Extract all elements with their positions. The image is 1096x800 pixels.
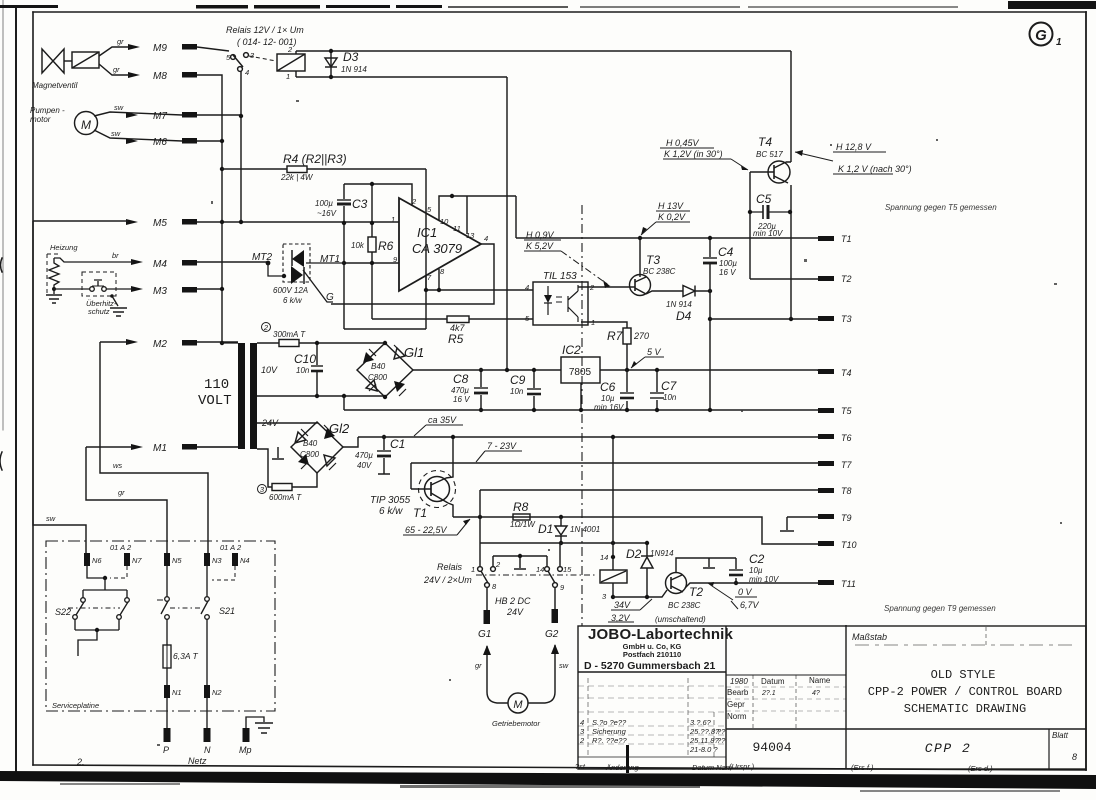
svg-text:(Urspr.): (Urspr.) bbox=[729, 762, 755, 771]
T4 emitter down bbox=[790, 185, 792, 319]
phototransistor bbox=[568, 285, 578, 322]
svg-text:H 0,45V: H 0,45V bbox=[666, 138, 700, 148]
terminal N3 bbox=[204, 553, 210, 566]
valve coil box bbox=[72, 52, 99, 68]
capacitor C3 plates bbox=[337, 199, 351, 201]
svg-text:Magnetventil: Magnetventil bbox=[32, 81, 78, 90]
wire M8 right then down bus x222 bbox=[197, 75, 222, 343]
fuse 600mA body bbox=[272, 484, 292, 491]
svg-text:Spannung gegen T5 gemessen: Spannung gegen T5 gemessen bbox=[885, 203, 997, 212]
Masstab dashed rule bbox=[855, 644, 1075, 646]
svg-text:14: 14 bbox=[536, 565, 544, 574]
svg-text:6,7V: 6,7V bbox=[740, 600, 760, 610]
optocoupler box bbox=[533, 282, 588, 325]
svg-text:270: 270 bbox=[633, 331, 649, 341]
relay coil box bbox=[600, 570, 627, 583]
wire IC1 out to TIL pin4 bbox=[426, 289, 533, 291]
7805 ground pin bbox=[580, 383, 582, 410]
svg-text:Relais 12V / 1× Um: Relais 12V / 1× Um bbox=[226, 25, 304, 35]
svg-text:10n: 10n bbox=[296, 366, 310, 375]
transistor T1 power bbox=[425, 477, 450, 502]
svg-text:min 10V: min 10V bbox=[749, 575, 779, 584]
annotation 5V bbox=[631, 357, 664, 368]
handwritten notes bbox=[76, 203, 997, 767]
G2 terminal bar bbox=[552, 609, 559, 623]
terminal M3 bbox=[182, 287, 197, 293]
svg-text:B40: B40 bbox=[303, 439, 318, 448]
svg-text:10n: 10n bbox=[663, 393, 677, 402]
resistor R7 bbox=[623, 328, 631, 344]
svg-text:5 V: 5 V bbox=[647, 347, 662, 357]
relay coil box bbox=[277, 54, 305, 71]
terminal N bbox=[204, 728, 211, 742]
svg-text:24V / 2×Um: 24V / 2×Um bbox=[423, 575, 472, 585]
svg-text:TIP 3055: TIP 3055 bbox=[370, 495, 411, 506]
thermal cutout dashed box bbox=[82, 272, 116, 296]
svg-text:10: 10 bbox=[440, 217, 449, 226]
wire M6 to bus x222 bbox=[197, 140, 222, 142]
svg-text:94004: 94004 bbox=[752, 740, 791, 755]
annotation H12,8V right bbox=[795, 152, 893, 174]
svg-text:T6: T6 bbox=[841, 433, 852, 443]
svg-text:2: 2 bbox=[495, 560, 501, 569]
terminal T1 bbox=[818, 236, 834, 241]
svg-text:3: 3 bbox=[250, 51, 255, 60]
svg-text:OLD STYLE: OLD STYLE bbox=[931, 668, 996, 682]
T1 bus wire bbox=[516, 237, 818, 239]
svg-text:16 V: 16 V bbox=[719, 268, 736, 277]
N3 wire down through S21 bbox=[206, 566, 208, 597]
svg-text:M3: M3 bbox=[153, 286, 167, 297]
terminal M7 bbox=[182, 112, 197, 118]
svg-text:1: 1 bbox=[1056, 37, 1062, 48]
svg-text:Serviceplatine: Serviceplatine bbox=[52, 701, 99, 710]
drawing number symbol G1 top right bbox=[1030, 23, 1063, 49]
svg-text:3,2V: 3,2V bbox=[611, 613, 631, 623]
svg-text:11: 11 bbox=[453, 224, 461, 233]
diode D3 bbox=[330, 51, 332, 77]
svg-text:40V: 40V bbox=[357, 461, 372, 470]
svg-text:C6: C6 bbox=[600, 380, 616, 394]
svg-text:1N 4001: 1N 4001 bbox=[570, 525, 600, 534]
resistor R8 body bbox=[513, 514, 530, 520]
contact arms bbox=[481, 571, 488, 583]
svg-text:T5: T5 bbox=[841, 406, 852, 416]
resistor R5 body bbox=[447, 316, 469, 323]
svg-text:H 0,9V: H 0,9V bbox=[526, 230, 555, 240]
T7 bus wire bbox=[411, 462, 818, 464]
24V bus wire to T6 bbox=[358, 436, 818, 438]
resistor R6 body bbox=[368, 237, 376, 252]
svg-text:Gepr: Gepr bbox=[727, 700, 745, 709]
bridge rectifier Gl1 bbox=[357, 343, 413, 397]
svg-text:470µ: 470µ bbox=[355, 451, 373, 460]
svg-text:8: 8 bbox=[440, 267, 445, 276]
scan noise specks bbox=[157, 100, 1062, 746]
svg-text:HB 2 DC: HB 2 DC bbox=[495, 596, 531, 606]
wire R5 row to TIL pin5 bbox=[372, 318, 533, 320]
svg-text:14: 14 bbox=[600, 553, 608, 562]
dash-dot crease divider bbox=[581, 205, 583, 626]
svg-text:Datum Nam: Datum Nam bbox=[692, 763, 732, 772]
wire M9 to switch bbox=[197, 47, 229, 51]
wire valve to M9 bbox=[99, 47, 130, 56]
svg-text:JOBO-Labortechnik: JOBO-Labortechnik bbox=[588, 626, 734, 643]
svg-text:BC 517: BC 517 bbox=[756, 150, 783, 159]
wire R4 row bbox=[222, 168, 426, 170]
capacitor C2 bbox=[735, 558, 737, 583]
svg-text:2: 2 bbox=[263, 323, 269, 332]
terminal M8 bbox=[182, 72, 197, 78]
faint page left edge bbox=[2, 0, 4, 430]
wire to right ground bbox=[112, 296, 118, 306]
svg-text:600V 12A: 600V 12A bbox=[273, 286, 308, 295]
svg-text:VOLT: VOLT bbox=[198, 393, 232, 409]
svg-text:1Ω/1W: 1Ω/1W bbox=[510, 520, 536, 529]
S22 dash line + label bbox=[68, 607, 120, 609]
coil pin3 down bbox=[612, 583, 614, 597]
wire valve to M8 bbox=[99, 64, 130, 75]
svg-text:N2: N2 bbox=[212, 688, 222, 697]
border frame left inner line bbox=[32, 12, 34, 765]
terminal M9 bbox=[182, 44, 197, 50]
svg-text:motor: motor bbox=[30, 115, 51, 124]
T2 bus wire from C5 loop bbox=[750, 278, 818, 280]
junction dots D3 bbox=[329, 49, 333, 53]
T9 stub with open contact bbox=[780, 517, 818, 531]
svg-text:T3: T3 bbox=[841, 314, 852, 324]
svg-text:Norm: Norm bbox=[727, 712, 747, 721]
svg-text:D4: D4 bbox=[676, 309, 692, 323]
svg-text:K 1,2V (in 30°): K 1,2V (in 30°) bbox=[664, 149, 723, 159]
pin2 stub to T3 base bbox=[578, 286, 630, 288]
svg-text:6 k/w: 6 k/w bbox=[379, 506, 403, 517]
svg-text:M9: M9 bbox=[153, 43, 167, 54]
svg-text:P: P bbox=[163, 745, 169, 755]
svg-text:ca 35V: ca 35V bbox=[428, 415, 457, 425]
svg-text:5: 5 bbox=[427, 205, 432, 214]
svg-text:Sicherung: Sicherung bbox=[592, 727, 627, 736]
annotation 7-23V bbox=[476, 451, 522, 462]
svg-text:gr: gr bbox=[117, 37, 124, 46]
wire M4 row to triac MT2 bbox=[197, 261, 268, 263]
svg-text:Name: Name bbox=[809, 676, 831, 685]
svg-text:6,3A T: 6,3A T bbox=[173, 651, 199, 661]
contact circles bbox=[478, 567, 483, 572]
T1 emitter corner bbox=[448, 503, 453, 517]
terminal T9 bbox=[818, 514, 834, 519]
dashed actuation line bbox=[476, 574, 596, 576]
svg-text:T8: T8 bbox=[841, 486, 852, 496]
border frame left outer line bbox=[15, 8, 17, 771]
svg-text:R?. ??e??: R?. ??e?? bbox=[592, 736, 627, 745]
svg-text:Spannung gegen T9 gemessen: Spannung gegen T9 gemessen bbox=[884, 604, 996, 613]
svg-text:7: 7 bbox=[427, 273, 432, 282]
capacitor C7 bbox=[656, 370, 658, 410]
wire MT1 row to pin9 bbox=[344, 262, 399, 264]
svg-text:2: 2 bbox=[589, 283, 595, 292]
svg-text:(Ers f.): (Ers f.) bbox=[851, 763, 874, 772]
svg-text:1N914: 1N914 bbox=[650, 549, 674, 558]
terminal M5 bbox=[182, 219, 197, 225]
svg-text:Gl2: Gl2 bbox=[329, 421, 350, 436]
svg-text:C8: C8 bbox=[453, 372, 469, 386]
terminal T8 bbox=[818, 488, 834, 493]
svg-text:T4: T4 bbox=[841, 368, 852, 378]
svg-text:100µ: 100µ bbox=[315, 199, 333, 208]
fuse 6,3A body bbox=[163, 645, 171, 668]
Gl2 output to 35V bus bbox=[343, 437, 358, 447]
capacitor C5 plates bbox=[762, 205, 764, 219]
junction heater bottom bbox=[52, 287, 56, 291]
svg-text:C1: C1 bbox=[390, 437, 405, 451]
wire M1 bbox=[86, 446, 238, 448]
svg-text:br: br bbox=[112, 251, 119, 260]
svg-text:7 - 23V: 7 - 23V bbox=[487, 441, 517, 451]
wire pin2 to IC1 down (R4 branch crossing) bbox=[515, 196, 517, 238]
svg-text:10µ: 10µ bbox=[601, 394, 615, 403]
apex pin4 feedback wire bbox=[331, 244, 494, 304]
svg-text:gr: gr bbox=[113, 65, 120, 74]
junction dots left buses bbox=[239, 114, 243, 118]
svg-text:S22: S22 bbox=[55, 607, 71, 617]
svg-text:M4: M4 bbox=[153, 259, 167, 270]
svg-text:01 A 2: 01 A 2 bbox=[110, 543, 132, 552]
annotation 34V bbox=[611, 599, 652, 610]
svg-text:N5: N5 bbox=[172, 556, 182, 565]
svg-text:CPP 2: CPP 2 bbox=[925, 741, 972, 756]
svg-text:(umschaltend): (umschaltend) bbox=[655, 615, 706, 624]
svg-text:H 12,8 V: H 12,8 V bbox=[836, 142, 872, 152]
bridge rectifier Gl2 bbox=[291, 422, 343, 473]
MT2 junction and wire bbox=[266, 261, 271, 266]
svg-text:0 V: 0 V bbox=[738, 587, 753, 597]
T4 bus wire (+rail via 7805) bbox=[413, 370, 818, 371]
wire switch to M3 bbox=[106, 288, 133, 290]
svg-text:4: 4 bbox=[580, 718, 584, 727]
svg-text:N4: N4 bbox=[240, 556, 250, 565]
svg-text:C4: C4 bbox=[718, 245, 734, 259]
svg-text:4: 4 bbox=[245, 68, 249, 77]
heater ground stem bbox=[53, 290, 55, 294]
24V feed vertical x613 bbox=[612, 437, 614, 570]
svg-text:MT2: MT2 bbox=[252, 252, 272, 263]
top loop wire bbox=[344, 184, 412, 205]
pin15 wire up bbox=[559, 543, 561, 566]
N5 wire down through switch bbox=[166, 566, 168, 597]
ground symbol right bbox=[110, 308, 127, 316]
svg-text:C3: C3 bbox=[352, 197, 368, 211]
terminal N4 bbox=[232, 553, 238, 566]
terminal T7 bbox=[818, 461, 834, 466]
svg-text:T9: T9 bbox=[841, 513, 852, 523]
svg-text:15: 15 bbox=[563, 565, 572, 574]
heater resistor zigzag bbox=[49, 258, 59, 290]
Blatt box divider bbox=[1048, 729, 1050, 769]
diode D4 bbox=[683, 286, 695, 297]
annotation H13V bbox=[641, 211, 690, 235]
svg-text:9: 9 bbox=[560, 583, 565, 592]
title block bbox=[578, 625, 1086, 769]
coil pin 2 stub bbox=[295, 51, 297, 54]
svg-text:C800: C800 bbox=[368, 373, 388, 382]
svg-text:T4: T4 bbox=[758, 135, 772, 149]
annotation 65-22,5V bbox=[403, 519, 470, 535]
contact common bar bbox=[493, 556, 547, 569]
dashed link to relay coil bbox=[249, 56, 276, 61]
pin7/8 stubs bbox=[426, 269, 439, 290]
svg-text:??: ?? bbox=[717, 736, 726, 745]
svg-text:T10: T10 bbox=[841, 540, 857, 550]
svg-text:T2: T2 bbox=[689, 585, 703, 599]
svg-text:65 - 22,5V: 65 - 22,5V bbox=[405, 525, 448, 535]
T3 collector up bbox=[639, 238, 641, 277]
terminal M4 bbox=[182, 260, 197, 266]
capacitor C4 bbox=[709, 238, 711, 410]
svg-text:25.11.8?: 25.11.8? bbox=[689, 736, 719, 745]
annotation 0V / 6,7V bbox=[708, 583, 757, 609]
svg-text:??: ?? bbox=[717, 727, 726, 736]
svg-text:1N 914: 1N 914 bbox=[666, 300, 692, 309]
T1 base wire corner bbox=[410, 463, 412, 489]
title block outline bbox=[578, 626, 1086, 769]
svg-text:21-8.0 ?: 21-8.0 ? bbox=[689, 745, 718, 754]
svg-text:sw: sw bbox=[114, 103, 124, 112]
primary connects bbox=[197, 343, 238, 447]
scan artifact: top broken black line bbox=[0, 1, 1096, 9]
wire M7 to bus x241 bbox=[197, 114, 241, 116]
ground rail jog down bbox=[343, 396, 345, 410]
svg-text:M7: M7 bbox=[153, 111, 167, 122]
svg-text:ws: ws bbox=[113, 461, 122, 470]
terminal N6 bbox=[84, 553, 90, 566]
regulator IC2 box bbox=[561, 357, 600, 383]
wire R4 down right side bbox=[425, 169, 427, 329]
switch arm arrow small bbox=[157, 599, 163, 601]
scan tick left margin lower bbox=[0, 452, 2, 470]
bottom label row line bbox=[578, 756, 726, 758]
svg-text:34V: 34V bbox=[614, 600, 631, 610]
pin bracket 10-13 bbox=[439, 196, 516, 234]
svg-text:D3: D3 bbox=[343, 50, 359, 64]
svg-text:D1: D1 bbox=[538, 522, 553, 536]
rev table row rules bbox=[578, 685, 726, 687]
svg-text:7805: 7805 bbox=[569, 367, 592, 378]
svg-text:min 10V: min 10V bbox=[753, 229, 783, 238]
svg-text:gr: gr bbox=[118, 488, 125, 497]
wire to D1 bottom and coil bbox=[480, 542, 647, 544]
title block divider vertical 2 bbox=[845, 625, 847, 769]
gear motor circle bbox=[508, 693, 528, 713]
bottom wire to 7805 input bbox=[296, 76, 507, 78]
svg-text:8: 8 bbox=[492, 582, 497, 591]
terminal T10 bbox=[818, 541, 834, 546]
wire motor to M7 bbox=[94, 112, 182, 116]
svg-text:1: 1 bbox=[471, 565, 475, 574]
svg-text:10V: 10V bbox=[261, 365, 278, 375]
wire M5 long from frame bbox=[33, 221, 399, 222]
terminal M2 bbox=[182, 340, 197, 346]
svg-text:110: 110 bbox=[204, 377, 229, 393]
svg-text:2: 2 bbox=[411, 197, 417, 206]
switch arm bbox=[233, 55, 243, 67]
M1 corner down bbox=[86, 447, 167, 553]
wire heater to thermal switch bbox=[54, 288, 90, 290]
title col line above CPP2 bbox=[846, 728, 1086, 730]
svg-text:3: 3 bbox=[580, 727, 585, 736]
transistor T3 bbox=[630, 275, 651, 296]
arrowheads on M wires bbox=[126, 44, 143, 450]
svg-text:Maßstab: Maßstab bbox=[852, 632, 887, 642]
svg-text:S21: S21 bbox=[219, 606, 235, 616]
motor wires with arrows bbox=[487, 646, 508, 703]
svg-text:2.: 2. bbox=[76, 757, 85, 767]
svg-text:470µ: 470µ bbox=[451, 386, 469, 395]
svg-text:D2: D2 bbox=[626, 547, 642, 561]
terminal T5 bbox=[818, 408, 834, 413]
triac dashed box bbox=[283, 244, 310, 282]
M2 corner down bbox=[100, 342, 208, 553]
pin1 stub to R7 bbox=[581, 322, 627, 328]
svg-text:16 V: 16 V bbox=[453, 395, 470, 404]
fuse 300mA body bbox=[279, 340, 299, 347]
svg-text:C9: C9 bbox=[510, 373, 526, 387]
svg-text:300mA T: 300mA T bbox=[273, 330, 306, 339]
svg-text:M1: M1 bbox=[153, 443, 167, 454]
terminal M1 bbox=[182, 444, 197, 450]
svg-text:R4 (R2||R3): R4 (R2||R3) bbox=[283, 152, 347, 166]
title block divider vertical 1 bbox=[725, 626, 727, 769]
svg-text:4: 4 bbox=[484, 234, 488, 243]
svg-text:~16V: ~16V bbox=[317, 209, 337, 218]
svg-text:N7: N7 bbox=[132, 556, 142, 565]
svg-text:13: 13 bbox=[466, 231, 475, 240]
terminal M6 bbox=[182, 138, 197, 144]
svg-text:T2: T2 bbox=[841, 274, 852, 284]
svg-text:TIL 153: TIL 153 bbox=[543, 271, 577, 282]
T3 bus wire bbox=[710, 318, 818, 320]
svg-text:Postfach 210110: Postfach 210110 bbox=[623, 650, 681, 659]
svg-text:Gl1: Gl1 bbox=[404, 345, 424, 360]
T2 emitter wire to T11 bbox=[685, 583, 818, 588]
svg-text:D - 5270 Gummersbach 21: D - 5270 Gummersbach 21 bbox=[584, 660, 715, 672]
svg-text:T1: T1 bbox=[413, 506, 427, 520]
wire motor to M6 bbox=[94, 130, 182, 141]
svg-text:T7: T7 bbox=[841, 460, 852, 470]
svg-text:B40: B40 bbox=[371, 362, 386, 371]
svg-text:T1: T1 bbox=[841, 234, 852, 244]
svg-text:Pumpen -: Pumpen - bbox=[30, 106, 65, 115]
svg-text:100µ: 100µ bbox=[719, 259, 737, 268]
svg-text:2: 2 bbox=[579, 736, 585, 745]
svg-text:(Ers d.): (Ers d.) bbox=[968, 764, 993, 773]
terminal N7 bbox=[124, 553, 130, 566]
svg-text:K 0,2V: K 0,2V bbox=[658, 212, 686, 222]
terminal T6 bbox=[818, 434, 834, 439]
svg-text:CA 3079: CA 3079 bbox=[412, 241, 462, 256]
capacitor C8 bbox=[480, 370, 482, 410]
svg-text:C5: C5 bbox=[756, 192, 772, 206]
diode D1 bbox=[560, 517, 562, 543]
svg-text:BC 238C: BC 238C bbox=[643, 267, 676, 276]
scan tick left margin upper bbox=[1, 258, 3, 272]
svg-text:M2: M2 bbox=[153, 339, 167, 350]
S22 contact block bbox=[83, 578, 127, 598]
C10 branch bbox=[316, 343, 318, 396]
T4 collector from top wire bbox=[786, 51, 791, 162]
left loop vertical C3 branch bbox=[343, 184, 345, 329]
mid col header line bbox=[726, 674, 846, 676]
